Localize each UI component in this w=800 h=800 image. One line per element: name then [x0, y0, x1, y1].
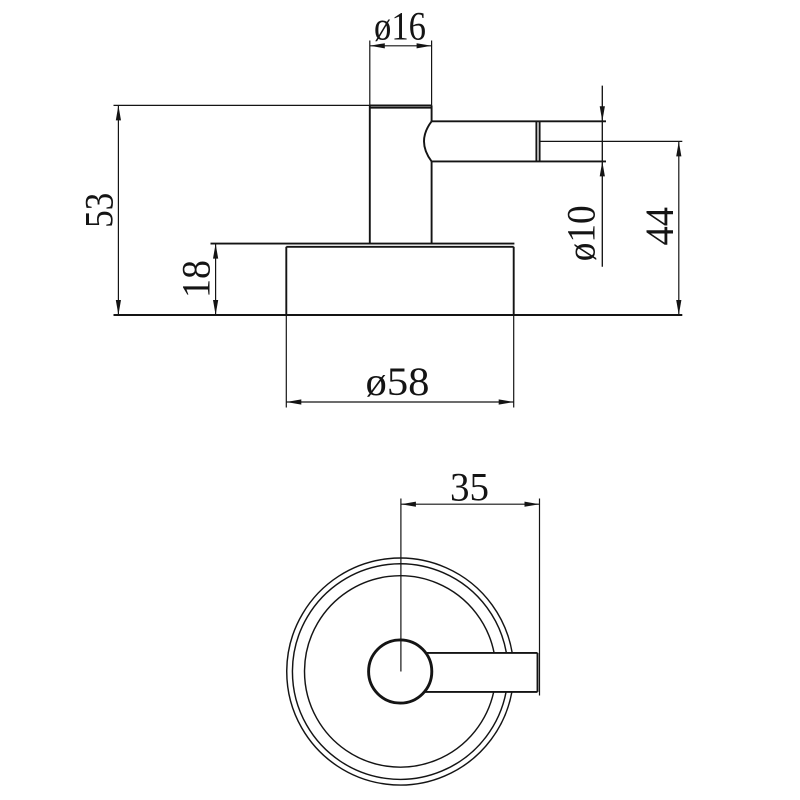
svg-text:ø10: ø10: [559, 205, 604, 261]
svg-text:18: 18: [173, 260, 218, 298]
dimension ∅16 lines and extension lines: [370, 41, 432, 106]
wire wall/mounting surface line (bottom of base, side view): [114, 314, 683, 316]
base plate top lip line (side view): [211, 244, 515, 247]
base plate inner ring (top view): [305, 576, 495, 767]
dimension ∅10 extension line / arm end face: [601, 86, 603, 267]
dimension ∅10 arrowheads: [600, 106, 605, 176]
svg-text:ø58: ø58: [366, 359, 430, 404]
hook arm groove double line: [536, 121, 539, 161]
dimension 18 arrowheads: [213, 244, 218, 315]
hook arm outline (top view): [424, 653, 537, 692]
dimension label 53 (rotated): [77, 193, 122, 228]
post cylinder right edge lower segment: [431, 161, 433, 243]
hook arm bottom edge: [432, 160, 606, 162]
base plate right edge: [513, 247, 515, 315]
dimension ∅16 arrowheads: [370, 43, 432, 48]
dimension 44 line and centerline extension: [540, 141, 683, 315]
base plate outer ring ∅58 (top view), interrupted by arm: [287, 558, 512, 785]
dimension label 18 (rotated): [173, 260, 218, 298]
dimension 35 arrowheads: [401, 502, 540, 507]
svg-text:35: 35: [450, 464, 489, 509]
svg-text:ø16: ø16: [374, 3, 426, 48]
post cylinder ∅16 (side view) left edge: [369, 105, 371, 243]
base plate middle ring (top view): [292, 564, 506, 780]
post cylinder right edge upper segment: [431, 105, 433, 121]
post circle ∅16 (top view, bold): [369, 640, 432, 703]
dimension label 35: [450, 464, 489, 509]
dimension label ∅58: [366, 359, 430, 404]
dimension ∅58 line and extension lines: [286, 315, 513, 408]
svg-text:44: 44: [637, 207, 682, 246]
dimension 35 line and extension lines (top view): [401, 499, 540, 696]
dimension label ∅16: [374, 3, 426, 48]
base plate left edge: [285, 247, 287, 315]
dimension 53 line and top extension line: [114, 105, 370, 315]
svg-text:53: 53: [77, 193, 122, 228]
dimension 53 arrowheads: [116, 105, 121, 315]
dimension label 44 (rotated): [637, 207, 682, 246]
dimension 44 arrowheads: [676, 141, 681, 315]
dimension 18 line: [215, 244, 217, 315]
fillet intersection curve arm-to-post: [424, 121, 432, 161]
dimension label ∅10 (rotated): [559, 205, 604, 261]
dimension ∅58 arrowheads: [286, 399, 513, 404]
post top cap double line: [370, 105, 432, 107]
hook arm top edge (side view): [432, 120, 606, 122]
